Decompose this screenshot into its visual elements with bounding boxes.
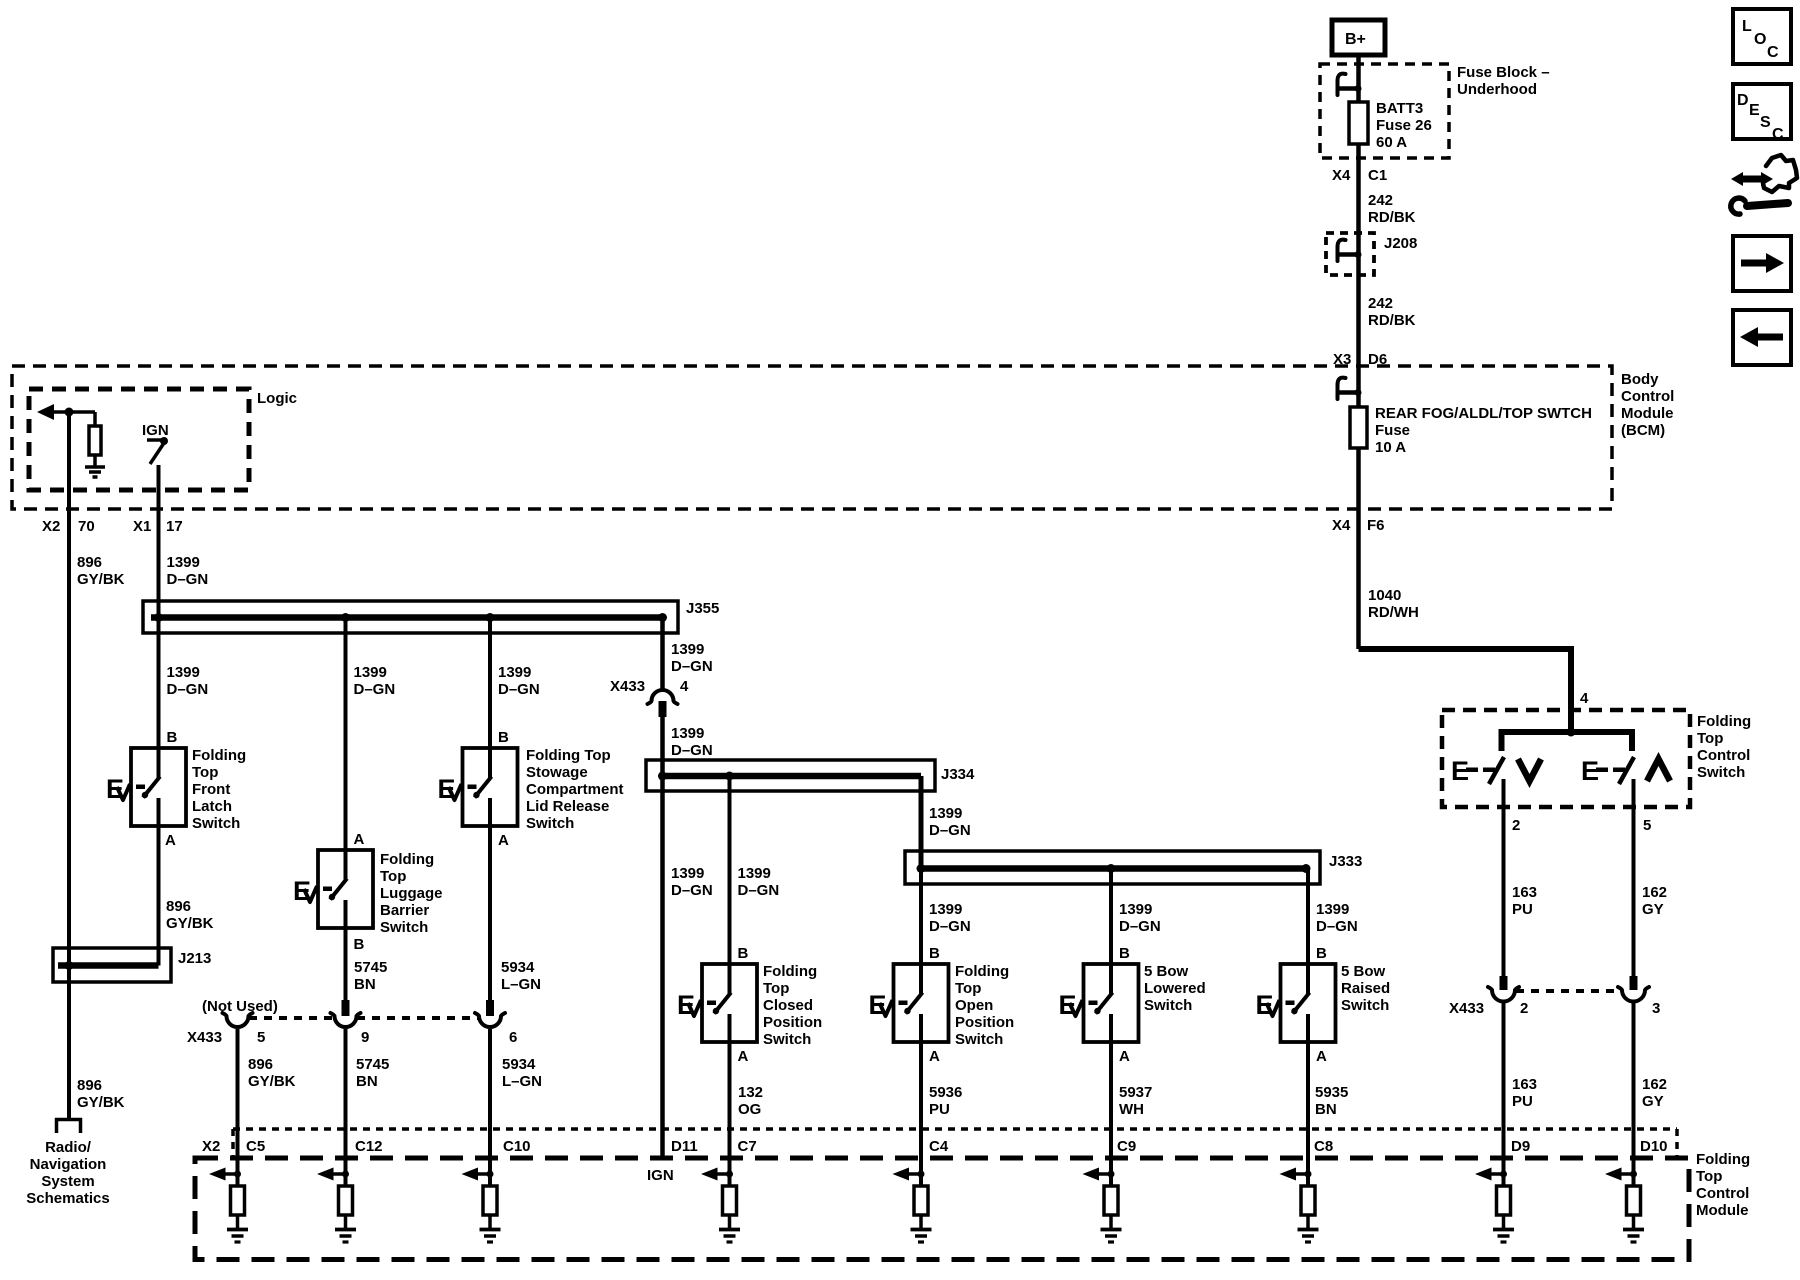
svg-text:C12: C12 bbox=[355, 1138, 383, 1155]
svg-text:D–GN: D–GN bbox=[738, 882, 780, 899]
svg-text:L–GN: L–GN bbox=[502, 1073, 542, 1090]
svg-text:D: D bbox=[1737, 92, 1749, 109]
svg-text:A: A bbox=[1119, 1048, 1130, 1065]
svg-text:Control: Control bbox=[1697, 747, 1750, 764]
svg-text:896: 896 bbox=[77, 554, 102, 571]
svg-text:Switch: Switch bbox=[526, 815, 574, 832]
svg-text:D–GN: D–GN bbox=[167, 571, 209, 588]
svg-text:Folding: Folding bbox=[955, 963, 1009, 980]
svg-text:5: 5 bbox=[1643, 817, 1651, 834]
svg-text:D–GN: D–GN bbox=[671, 658, 713, 675]
svg-text:242: 242 bbox=[1368, 192, 1393, 209]
svg-text:Switch: Switch bbox=[1341, 997, 1389, 1014]
svg-text:163: 163 bbox=[1512, 1076, 1537, 1093]
svg-text:L–GN: L–GN bbox=[501, 976, 541, 993]
svg-text:17: 17 bbox=[166, 518, 183, 535]
svg-text:5 Bow: 5 Bow bbox=[1341, 963, 1386, 980]
svg-text:4: 4 bbox=[1580, 690, 1589, 707]
svg-text:5745: 5745 bbox=[354, 959, 387, 976]
svg-text:10 A: 10 A bbox=[1375, 439, 1406, 456]
svg-text:X433: X433 bbox=[1449, 1000, 1484, 1017]
svg-text:IGN: IGN bbox=[647, 1167, 674, 1184]
svg-text:Fuse Block –: Fuse Block – bbox=[1457, 64, 1550, 81]
svg-text:70: 70 bbox=[78, 518, 95, 535]
svg-text:1399: 1399 bbox=[167, 554, 200, 571]
svg-text:3: 3 bbox=[1652, 1000, 1660, 1017]
svg-text:Top: Top bbox=[1696, 1168, 1722, 1185]
svg-text:A: A bbox=[738, 1048, 749, 1065]
svg-text:1399: 1399 bbox=[929, 805, 962, 822]
svg-text:IGN: IGN bbox=[142, 422, 169, 439]
svg-text:Underhood: Underhood bbox=[1457, 81, 1537, 98]
svg-text:REAR FOG/ALDL/TOP SWTCH: REAR FOG/ALDL/TOP SWTCH bbox=[1375, 405, 1592, 422]
svg-text:Latch: Latch bbox=[192, 798, 232, 815]
svg-text:X2: X2 bbox=[202, 1138, 220, 1155]
svg-text:A: A bbox=[165, 832, 176, 849]
svg-text:S: S bbox=[1760, 114, 1771, 131]
svg-text:Folding: Folding bbox=[380, 851, 434, 868]
svg-text:PU: PU bbox=[929, 1101, 950, 1118]
svg-text:Folding: Folding bbox=[192, 747, 246, 764]
svg-text:Top: Top bbox=[192, 764, 218, 781]
svg-text:J333: J333 bbox=[1329, 853, 1362, 870]
svg-text:C9: C9 bbox=[1117, 1138, 1136, 1155]
svg-text:OG: OG bbox=[738, 1101, 761, 1118]
svg-text:B: B bbox=[1119, 945, 1130, 962]
svg-text:Compartment: Compartment bbox=[526, 781, 624, 798]
svg-text:Folding: Folding bbox=[1696, 1151, 1750, 1168]
svg-text:A: A bbox=[1316, 1048, 1327, 1065]
svg-text:Switch: Switch bbox=[380, 919, 428, 936]
svg-text:B: B bbox=[929, 945, 940, 962]
svg-text:Position: Position bbox=[955, 1014, 1014, 1031]
svg-text:D–GN: D–GN bbox=[167, 681, 209, 698]
svg-text:Logic: Logic bbox=[257, 390, 297, 407]
svg-text:Top: Top bbox=[763, 980, 789, 997]
svg-text:J355: J355 bbox=[686, 600, 719, 617]
svg-text:162: 162 bbox=[1642, 884, 1667, 901]
svg-text:RD/BK: RD/BK bbox=[1368, 312, 1416, 329]
svg-text:1040: 1040 bbox=[1368, 587, 1401, 604]
svg-text:1399: 1399 bbox=[929, 901, 962, 918]
svg-text:5745: 5745 bbox=[356, 1056, 389, 1073]
svg-text:X4: X4 bbox=[1332, 517, 1351, 534]
svg-text:Lowered: Lowered bbox=[1144, 980, 1206, 997]
svg-text:Switch: Switch bbox=[763, 1031, 811, 1048]
svg-text:B+: B+ bbox=[1345, 31, 1366, 48]
svg-text:Folding: Folding bbox=[763, 963, 817, 980]
svg-text:C7: C7 bbox=[738, 1138, 757, 1155]
svg-text:BN: BN bbox=[354, 976, 376, 993]
svg-text:2: 2 bbox=[1512, 817, 1520, 834]
svg-text:B: B bbox=[167, 729, 178, 746]
svg-text:Closed: Closed bbox=[763, 997, 813, 1014]
svg-text:J213: J213 bbox=[178, 950, 211, 967]
svg-text:1399: 1399 bbox=[498, 664, 531, 681]
svg-text:Control: Control bbox=[1621, 388, 1674, 405]
svg-text:A: A bbox=[929, 1048, 940, 1065]
svg-text:60 A: 60 A bbox=[1376, 134, 1407, 151]
svg-text:GY/BK: GY/BK bbox=[248, 1073, 296, 1090]
svg-text:C5: C5 bbox=[246, 1138, 265, 1155]
svg-text:D–GN: D–GN bbox=[354, 681, 396, 698]
svg-text:896: 896 bbox=[248, 1056, 273, 1073]
svg-text:Switch: Switch bbox=[955, 1031, 1003, 1048]
svg-text:RD/WH: RD/WH bbox=[1368, 604, 1419, 621]
svg-text:C10: C10 bbox=[503, 1138, 531, 1155]
svg-text:1399: 1399 bbox=[671, 725, 704, 742]
svg-text:1399: 1399 bbox=[671, 641, 704, 658]
svg-text:C4: C4 bbox=[929, 1138, 949, 1155]
svg-text:BATT3: BATT3 bbox=[1376, 100, 1423, 117]
svg-text:1399: 1399 bbox=[354, 664, 387, 681]
svg-text:2: 2 bbox=[1520, 1000, 1528, 1017]
svg-text:X1: X1 bbox=[133, 518, 151, 535]
svg-text:C: C bbox=[1767, 44, 1779, 61]
svg-text:D–GN: D–GN bbox=[671, 742, 713, 759]
svg-text:Control: Control bbox=[1696, 1185, 1749, 1202]
svg-text:1399: 1399 bbox=[167, 664, 200, 681]
svg-text:X433: X433 bbox=[610, 678, 645, 695]
svg-text:D–GN: D–GN bbox=[671, 882, 713, 899]
svg-text:6: 6 bbox=[509, 1029, 517, 1046]
svg-text:Switch: Switch bbox=[192, 815, 240, 832]
svg-text:GY/BK: GY/BK bbox=[77, 571, 125, 588]
svg-text:PU: PU bbox=[1512, 901, 1533, 918]
svg-text:Top: Top bbox=[955, 980, 981, 997]
svg-text:WH: WH bbox=[1119, 1101, 1144, 1118]
svg-text:Stowage: Stowage bbox=[526, 764, 588, 781]
svg-text:896: 896 bbox=[77, 1077, 102, 1094]
svg-text:D–GN: D–GN bbox=[1119, 918, 1161, 935]
svg-text:9: 9 bbox=[361, 1029, 369, 1046]
svg-text:B: B bbox=[738, 945, 749, 962]
svg-text:132: 132 bbox=[738, 1084, 763, 1101]
svg-text:GY/BK: GY/BK bbox=[77, 1094, 125, 1111]
svg-text:Barrier: Barrier bbox=[380, 902, 429, 919]
svg-text:Fuse: Fuse bbox=[1375, 422, 1410, 439]
svg-text:5935: 5935 bbox=[1315, 1084, 1348, 1101]
svg-text:B: B bbox=[354, 936, 365, 953]
svg-text:D–GN: D–GN bbox=[498, 681, 540, 698]
svg-text:F6: F6 bbox=[1367, 517, 1385, 534]
svg-text:BN: BN bbox=[1315, 1101, 1337, 1118]
svg-text:D–GN: D–GN bbox=[929, 918, 971, 935]
svg-text:Module: Module bbox=[1696, 1202, 1749, 1219]
svg-text:Folding: Folding bbox=[1697, 713, 1751, 730]
svg-text:1399: 1399 bbox=[1119, 901, 1152, 918]
svg-text:GY: GY bbox=[1642, 1093, 1664, 1110]
svg-text:BN: BN bbox=[356, 1073, 378, 1090]
svg-text:(BCM): (BCM) bbox=[1621, 422, 1665, 439]
svg-text:C8: C8 bbox=[1314, 1138, 1333, 1155]
svg-text:GY/BK: GY/BK bbox=[166, 915, 214, 932]
svg-text:D–GN: D–GN bbox=[1316, 918, 1358, 935]
svg-text:Lid Release: Lid Release bbox=[526, 798, 609, 815]
svg-text:Top: Top bbox=[1697, 730, 1723, 747]
svg-text:Front: Front bbox=[192, 781, 230, 798]
svg-text:Module: Module bbox=[1621, 405, 1674, 422]
svg-text:L: L bbox=[1742, 18, 1752, 35]
svg-text:1399: 1399 bbox=[671, 865, 704, 882]
svg-text:1399: 1399 bbox=[1316, 901, 1349, 918]
svg-text:162: 162 bbox=[1642, 1076, 1667, 1093]
svg-text:D9: D9 bbox=[1511, 1138, 1530, 1155]
svg-text:B: B bbox=[498, 729, 509, 746]
svg-text:Switch: Switch bbox=[1697, 764, 1745, 781]
svg-text:Radio/: Radio/ bbox=[45, 1139, 92, 1156]
svg-text:GY: GY bbox=[1642, 901, 1664, 918]
svg-text:Position: Position bbox=[763, 1014, 822, 1031]
svg-text:Switch: Switch bbox=[1144, 997, 1192, 1014]
svg-text:J334: J334 bbox=[941, 766, 975, 783]
svg-text:Folding Top: Folding Top bbox=[526, 747, 611, 764]
svg-text:C: C bbox=[1772, 126, 1784, 143]
svg-text:D10: D10 bbox=[1640, 1138, 1668, 1155]
svg-text:B: B bbox=[1316, 945, 1327, 962]
svg-text:System: System bbox=[41, 1173, 94, 1190]
svg-text:(Not Used): (Not Used) bbox=[202, 998, 278, 1015]
svg-text:Luggage: Luggage bbox=[380, 885, 443, 902]
svg-text:5936: 5936 bbox=[929, 1084, 962, 1101]
svg-text:4: 4 bbox=[680, 678, 689, 695]
svg-text:Fuse 26: Fuse 26 bbox=[1376, 117, 1432, 134]
svg-text:Schematics: Schematics bbox=[26, 1190, 109, 1207]
svg-text:Open: Open bbox=[955, 997, 993, 1014]
svg-text:D–GN: D–GN bbox=[929, 822, 971, 839]
svg-text:PU: PU bbox=[1512, 1093, 1533, 1110]
svg-text:A: A bbox=[354, 831, 365, 848]
svg-text:242: 242 bbox=[1368, 295, 1393, 312]
svg-text:5934: 5934 bbox=[501, 959, 535, 976]
svg-text:163: 163 bbox=[1512, 884, 1537, 901]
svg-text:C1: C1 bbox=[1368, 167, 1387, 184]
svg-text:RD/BK: RD/BK bbox=[1368, 209, 1416, 226]
svg-text:5: 5 bbox=[257, 1029, 265, 1046]
svg-text:X2: X2 bbox=[42, 518, 60, 535]
svg-text:A: A bbox=[498, 832, 509, 849]
svg-text:5 Bow: 5 Bow bbox=[1144, 963, 1189, 980]
svg-text:Body: Body bbox=[1621, 371, 1659, 388]
svg-text:896: 896 bbox=[166, 898, 191, 915]
svg-text:Navigation: Navigation bbox=[30, 1156, 107, 1173]
svg-text:5934: 5934 bbox=[502, 1056, 536, 1073]
svg-text:X4: X4 bbox=[1332, 167, 1351, 184]
svg-text:1399: 1399 bbox=[738, 865, 771, 882]
svg-text:5937: 5937 bbox=[1119, 1084, 1152, 1101]
svg-text:X433: X433 bbox=[187, 1029, 222, 1046]
svg-text:D11: D11 bbox=[671, 1138, 698, 1155]
svg-text:J208: J208 bbox=[1384, 235, 1417, 252]
svg-text:O: O bbox=[1754, 31, 1766, 48]
svg-text:E: E bbox=[1749, 102, 1760, 119]
svg-text:Raised: Raised bbox=[1341, 980, 1390, 997]
svg-text:Top: Top bbox=[380, 868, 406, 885]
